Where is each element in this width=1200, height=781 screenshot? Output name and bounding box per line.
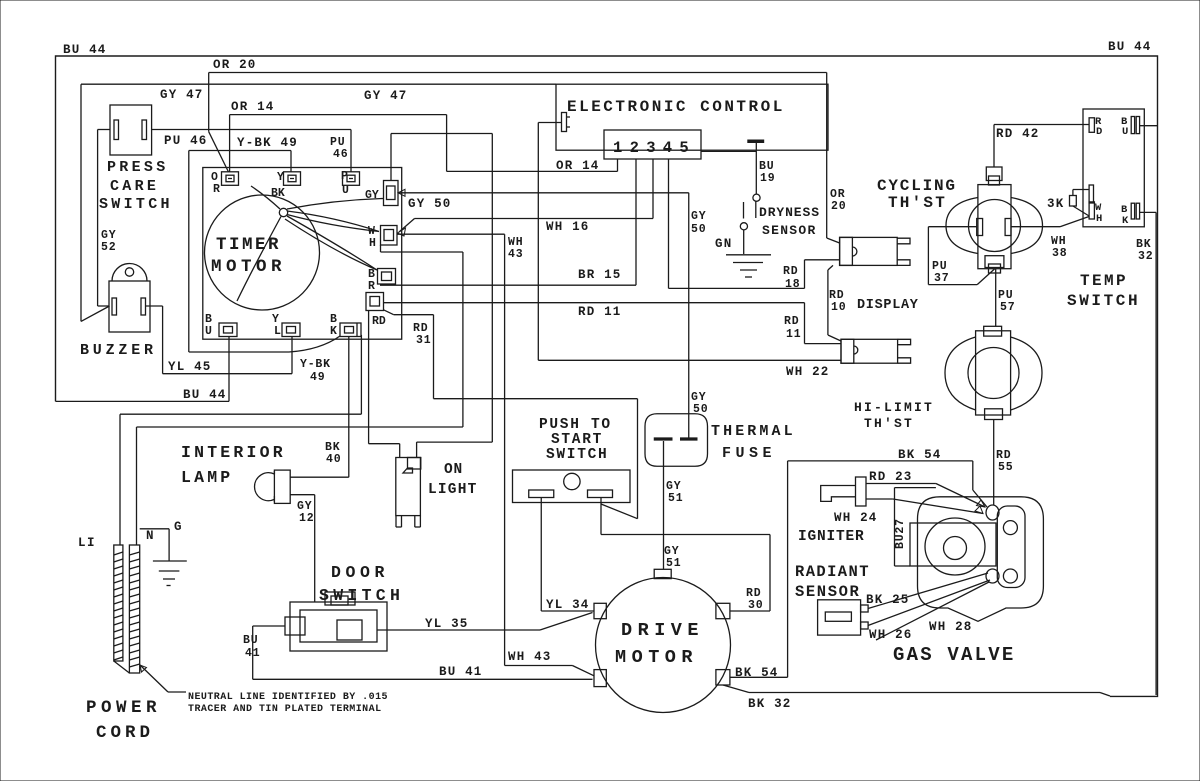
gas valve lower coil terminal: [986, 569, 999, 583]
wire GY12 lamp to door switch: [290, 494, 315, 496]
svg-text:RD 42: RD 42: [996, 127, 1040, 141]
svg-text:BK 32: BK 32: [748, 697, 792, 711]
ground GN: [726, 254, 771, 256]
svg-text:DRYNESS: DRYNESS: [759, 205, 820, 220]
svg-text:RD: RD: [783, 265, 798, 278]
svg-text:P: P: [341, 170, 348, 183]
wire GY52 from press care to buzzer: [98, 129, 110, 131]
timer terminal B-R: [378, 269, 396, 285]
svg-text:GY: GY: [691, 210, 706, 223]
svg-text:PU 46: PU 46: [164, 134, 208, 148]
svg-text:MOTOR: MOTOR: [211, 257, 286, 277]
svg-text:40: 40: [326, 453, 341, 466]
wire YL35 door switch to drive motor: [377, 629, 540, 631]
svg-text:51: 51: [668, 492, 683, 505]
timer motor box: [203, 168, 402, 340]
wire pin1 OR14 stub: [617, 159, 619, 171]
wire pin5 to BU19: [701, 150, 756, 152]
gas valve center: [925, 518, 985, 575]
wire neutral cord-N to timer W-H bottom: [137, 426, 463, 428]
svg-text:18: 18: [785, 278, 800, 291]
wire OR20: [209, 72, 827, 74]
wire BK54 drive motor to gas valve: [730, 676, 788, 678]
svg-text:49: 49: [310, 371, 325, 384]
svg-text:LIGHT: LIGHT: [428, 482, 478, 498]
svg-text:PRESS: PRESS: [107, 159, 169, 176]
wire GY47 left drop to buzzer: [80, 84, 82, 321]
svg-text:46: 46: [333, 148, 348, 161]
timer terminal W-H: [381, 226, 398, 246]
svg-text:FUSE: FUSE: [722, 445, 776, 462]
wire BK25 radiant sensor to gas valve: [868, 573, 988, 609]
temp switch pole terminal: [1089, 185, 1093, 203]
svg-text:PUSH TO: PUSH TO: [539, 417, 612, 433]
svg-text:BU27: BU27: [894, 518, 907, 549]
cycling thermostat: [946, 198, 978, 254]
svg-text:WH 26: WH 26: [869, 628, 913, 642]
svg-text:GN: GN: [715, 237, 732, 251]
svg-text:RD: RD: [784, 315, 799, 328]
wire RD31 timer RD to push-to-start switch: [384, 310, 394, 315]
pointer to neutral note: [140, 665, 168, 692]
wire PU57 cycling to hi-limit: [995, 269, 997, 327]
display lower connector: [841, 339, 898, 363]
wire WH38 cycling to temp switch: [1011, 226, 1060, 228]
svg-text:MOTOR: MOTOR: [615, 647, 698, 668]
svg-text:GAS VALVE: GAS VALVE: [893, 644, 1015, 666]
svg-text:N: N: [146, 529, 155, 543]
svg-text:SWITCH: SWITCH: [546, 447, 608, 463]
wire RD10 between connectors: [828, 265, 833, 270]
on light: [396, 458, 421, 516]
svg-text:52: 52: [101, 241, 116, 254]
wire BK32 temp switch to bottom frame: [1140, 211, 1157, 213]
gas valve body: [918, 497, 1044, 622]
door switch: [290, 602, 387, 651]
svg-text:55: 55: [998, 461, 1013, 474]
svg-text:31: 31: [416, 334, 431, 347]
svg-text:2: 2: [630, 139, 639, 157]
gas valve upper coil terminal: [986, 505, 999, 520]
wire GY-top to lamp-right: [390, 134, 392, 181]
temp switch terminal BK: [1131, 203, 1134, 219]
svg-text:K: K: [330, 325, 337, 338]
svg-text:DISPLAY: DISPLAY: [857, 298, 919, 313]
svg-text:WH 28: WH 28: [929, 620, 973, 634]
svg-text:38: 38: [1052, 247, 1067, 260]
wire WH16 pin3 to timer W-H: [415, 218, 654, 220]
svg-text:LI: LI: [78, 536, 96, 550]
svg-text:TH'ST: TH'ST: [888, 194, 947, 212]
wire BU44 branch to timer B-U: [56, 400, 230, 402]
svg-text:GY 50: GY 50: [408, 197, 452, 211]
svg-text:START: START: [551, 432, 603, 448]
wire WH28: [876, 582, 989, 640]
dryness sensor contacts: [753, 194, 760, 201]
temp switch terminal BU: [1131, 117, 1134, 134]
timer terminal GY: [384, 181, 399, 206]
svg-text:SENSOR: SENSOR: [762, 223, 817, 238]
svg-text:20: 20: [831, 200, 846, 213]
svg-text:4: 4: [663, 139, 672, 157]
svg-text:GY 47: GY 47: [364, 89, 408, 103]
svg-text:D: D: [1096, 126, 1102, 138]
svg-text:3: 3: [646, 139, 655, 157]
wire BK40 timer B-K to interior lamp: [348, 337, 350, 478]
svg-text:WH 24: WH 24: [834, 511, 878, 525]
wire PU46 press care to timer P-U: [152, 129, 351, 131]
wire GY50 timer to thermal fuse: [398, 192, 689, 194]
svg-text:19: 19: [760, 172, 775, 185]
svg-text:GY: GY: [365, 189, 379, 202]
wire RD11 timer RD to display lower connector: [384, 302, 805, 304]
svg-text:41: 41: [245, 647, 260, 660]
svg-text:RD: RD: [372, 315, 386, 328]
timer terminal O-R: [222, 172, 239, 186]
svg-text:K: K: [1122, 215, 1129, 227]
temp switch terminal RD: [1089, 118, 1094, 133]
svg-text:H: H: [369, 237, 376, 250]
svg-text:DOOR: DOOR: [331, 563, 389, 582]
svg-text:GY 47: GY 47: [160, 88, 204, 102]
wire control left terminal trunk: [537, 123, 539, 361]
svg-text:37: 37: [934, 272, 949, 285]
svg-text:Y: Y: [277, 171, 284, 184]
svg-text:ELECTRONIC CONTROL: ELECTRONIC CONTROL: [567, 98, 785, 116]
svg-text:11: 11: [786, 328, 801, 341]
svg-text:CARE: CARE: [110, 178, 159, 195]
svg-text:Y-BK 49: Y-BK 49: [237, 136, 298, 150]
wire pin3 stub: [652, 159, 654, 219]
svg-text:POWER: POWER: [86, 698, 161, 718]
svg-text:WH 22: WH 22: [786, 365, 830, 379]
wire RD23 igniter to gas valve: [866, 483, 936, 485]
temp switch terminal WH: [1089, 202, 1094, 219]
svg-text:RADIANT: RADIANT: [795, 563, 870, 581]
svg-text:43: 43: [508, 248, 523, 261]
wire YL34 push switch to drive motor: [540, 498, 542, 612]
wire GY47 horizontal: [81, 83, 556, 85]
svg-text:BR 15: BR 15: [578, 268, 622, 282]
interior lamp: [255, 473, 275, 501]
svg-text:R: R: [213, 183, 220, 196]
wire pin4 RD18 loop: [668, 159, 670, 288]
electronic control left terminal: [562, 113, 567, 132]
wire PU37: [928, 226, 976, 228]
wire BU41 door switch to drive motor: [253, 625, 285, 627]
svg-text:SWITCH: SWITCH: [99, 196, 173, 213]
wire RD42 cycling to temp switch: [993, 125, 995, 168]
svg-text:U: U: [205, 325, 212, 338]
wire WH43 timer W-H to drive motor: [398, 233, 505, 235]
wire BU44 temp switch to frame: [1140, 125, 1158, 127]
svg-text:BU 44: BU 44: [183, 388, 227, 402]
gas valve coil box: [910, 523, 996, 566]
power cord: [119, 414, 121, 545]
timer terminal RD: [366, 293, 384, 311]
svg-text:BK: BK: [271, 187, 285, 200]
svg-text:TH'ST: TH'ST: [864, 416, 914, 431]
wire GY51 thermal fuse to drive motor: [663, 441, 665, 569]
power cord ground: [140, 528, 169, 530]
svg-text:CORD: CORD: [96, 723, 154, 743]
wire YL45 buzzer to timer Y-L: [146, 305, 163, 307]
wire BU44 outer frame: [56, 56, 1158, 696]
drive motor: [596, 578, 731, 713]
timer terminal B-U: [219, 323, 237, 337]
svg-text:SENSOR: SENSOR: [795, 583, 860, 601]
svg-text:OR 14: OR 14: [556, 159, 600, 173]
svg-text:YL 35: YL 35: [425, 617, 469, 631]
wire OR20 drop to timer O-R: [208, 73, 210, 132]
svg-text:HI-LIMIT: HI-LIMIT: [854, 400, 934, 415]
timer motor circle: [205, 195, 320, 310]
svg-text:YL 45: YL 45: [168, 360, 212, 374]
svg-text:51: 51: [666, 557, 681, 570]
wire Y-BK49 loop: [189, 150, 291, 152]
svg-text:INTERIOR: INTERIOR: [181, 443, 286, 462]
wire WH26 radiant sensor to gas valve: [868, 580, 990, 626]
timer terminal Y-L: [282, 323, 300, 337]
svg-text:BK 54: BK 54: [898, 448, 942, 462]
svg-text:IGNITER: IGNITER: [798, 529, 865, 545]
svg-text:RD 11: RD 11: [578, 305, 622, 319]
svg-text:50: 50: [691, 223, 706, 236]
temp switch box: [1083, 109, 1144, 227]
svg-text:OR 20: OR 20: [213, 58, 257, 72]
wire RD lamp-left feed: [368, 311, 370, 444]
svg-text:SWITCH: SWITCH: [319, 586, 404, 605]
gas valve right plate: [997, 506, 1025, 588]
svg-text:WH 16: WH 16: [546, 220, 590, 234]
timer terminal Y-BK: [284, 172, 301, 186]
electronic control box: [556, 84, 828, 150]
svg-text:3K: 3K: [1047, 197, 1064, 211]
radiant sensor: [818, 600, 861, 635]
wire BK32 drive motor to bottom frame: [723, 685, 749, 693]
svg-text:12: 12: [299, 512, 314, 525]
svg-text:OR 14: OR 14: [231, 100, 275, 114]
svg-text:BK 25: BK 25: [866, 593, 910, 607]
svg-text:U: U: [342, 184, 349, 197]
svg-text:TIMER: TIMER: [216, 235, 281, 255]
thermal fuse: [645, 414, 708, 467]
svg-text:G: G: [174, 520, 183, 534]
svg-text:32: 32: [1138, 250, 1153, 263]
svg-text:WH 43: WH 43: [508, 650, 552, 664]
push to start switch: [513, 470, 631, 503]
resistor 3K: [1070, 196, 1077, 207]
wire LI cord to timer B-K: [120, 413, 361, 415]
svg-text:BU 41: BU 41: [439, 665, 483, 679]
svg-text:1: 1: [613, 139, 622, 157]
svg-text:30: 30: [748, 599, 763, 612]
svg-text:LAMP: LAMP: [181, 468, 233, 487]
wire RD30 push switch to drive motor: [600, 498, 602, 535]
wire pin2 BR15: [635, 159, 637, 285]
electronic control 12345 box: [604, 130, 701, 159]
buzzer: [112, 264, 147, 281]
display upper connector: [840, 237, 898, 265]
svg-text:CYCLING: CYCLING: [877, 177, 957, 195]
svg-text:H: H: [1096, 213, 1102, 225]
timer terminal P-U: [343, 172, 360, 186]
svg-text:ON: ON: [444, 462, 463, 478]
svg-text:BU 44: BU 44: [63, 43, 107, 57]
svg-text:TRACER AND TIN PLATED TERMINAL: TRACER AND TIN PLATED TERMINAL: [188, 704, 382, 715]
svg-text:THERMAL: THERMAL: [711, 423, 796, 440]
press care switch: [110, 105, 152, 155]
timer terminal B-K: [340, 323, 361, 337]
dryness sensor plate BU19: [747, 140, 764, 144]
svg-text:DRIVE: DRIVE: [621, 620, 704, 641]
svg-text:BUZZER: BUZZER: [80, 342, 157, 359]
svg-text:TEMP: TEMP: [1080, 272, 1128, 290]
igniter: [856, 477, 867, 506]
wire RD55 hi-limit to gas valve: [993, 420, 995, 506]
svg-text:U: U: [1122, 126, 1128, 138]
svg-text:57: 57: [1000, 301, 1015, 314]
svg-text:10: 10: [831, 301, 846, 314]
svg-text:NEUTRAL LINE IDENTIFIED BY .01: NEUTRAL LINE IDENTIFIED BY .015: [188, 692, 388, 703]
svg-text:R: R: [368, 280, 375, 293]
wire WH24 igniter to gas valve: [866, 498, 893, 500]
wire WH22 to display lower connector: [538, 359, 841, 361]
svg-text:RD 23: RD 23: [869, 470, 913, 484]
timer cam follower curves: [279, 208, 287, 216]
svg-text:BU: BU: [243, 634, 258, 647]
svg-text:L: L: [274, 325, 281, 338]
svg-text:Y-BK: Y-BK: [300, 358, 331, 371]
svg-text:BU 44: BU 44: [1108, 40, 1152, 54]
svg-text:YL 34: YL 34: [546, 598, 590, 612]
svg-text:BK 54: BK 54: [735, 666, 779, 680]
svg-text:SWITCH: SWITCH: [1067, 292, 1140, 310]
svg-text:5: 5: [679, 139, 688, 157]
hi-limit thermostat: [945, 337, 976, 410]
